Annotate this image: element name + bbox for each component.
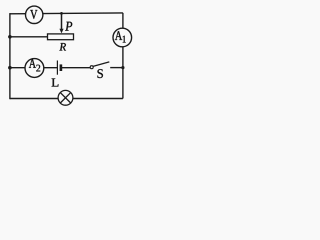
label R (59, 43, 66, 50)
node slider tap on top rail (60, 12, 63, 15)
voltmeter V body (26, 6, 43, 23)
label 1 subscript (123, 36, 126, 43)
node rheostat junction on left rail (8, 35, 12, 39)
rheostat R body (48, 34, 74, 40)
label 2 subscript (36, 65, 40, 72)
label S (98, 69, 103, 78)
label V (30, 10, 37, 19)
wire left rail (9, 13, 11, 99)
battery long plate (56, 61, 58, 75)
ammeter A2 body (25, 59, 44, 78)
ammeter A1 body (113, 28, 132, 47)
rheostat R slider arrow (59, 13, 63, 33)
node switch junction on right rail (121, 66, 124, 69)
wire battery to switch (61, 67, 90, 69)
switch S pivot (90, 66, 93, 69)
lamp L body (58, 90, 73, 105)
wire A2 branch (10, 67, 58, 69)
wire bottom rail (10, 98, 123, 100)
label L (52, 79, 59, 87)
wire switch to right rail (110, 67, 123, 69)
label P (65, 22, 72, 31)
label A of A2 (29, 59, 36, 68)
label A of A1 (115, 31, 122, 40)
switch S lever (93, 62, 109, 67)
wire rheostat to left rail (10, 36, 48, 38)
battery short plate (60, 64, 63, 71)
wire right rail (122, 13, 124, 99)
node A2 junction on left rail (8, 66, 12, 70)
wire top rail (10, 12, 123, 15)
